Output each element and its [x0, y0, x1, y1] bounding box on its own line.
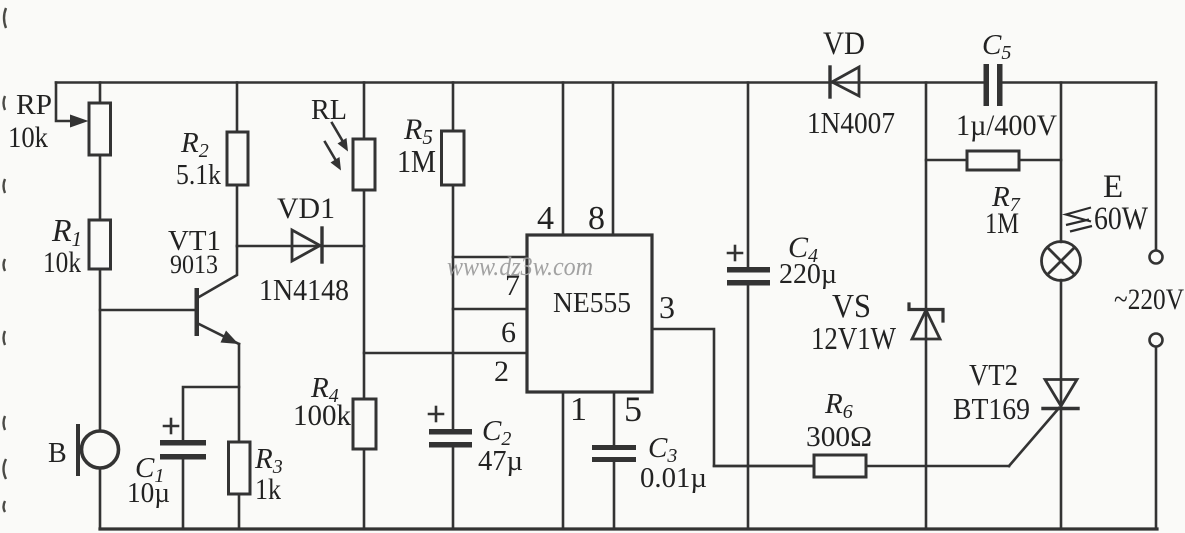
resistor R7 — [967, 151, 1019, 170]
svg-text:~220V: ~220V — [1114, 283, 1184, 316]
thyristor VT2 — [1045, 380, 1077, 407]
capacitor C1 plus sign — [164, 425, 178, 428]
wire: R2 bottom lead to VD1 node — [236, 185, 239, 246]
wire: lamp column from top rail — [1060, 83, 1063, 243]
svg-text:www.dz3w.com: www.dz3w.com — [447, 252, 593, 281]
svg-text:7: 7 — [505, 269, 520, 302]
svg-text:E: E — [1103, 169, 1123, 205]
svg-text:0.01µ: 0.01µ — [640, 463, 707, 494]
capacitor C1 plates — [160, 440, 206, 446]
photoresistor RL light arrows — [332, 123, 342, 140]
terminal upper ~220V — [1150, 251, 1163, 264]
wire: emitter down to R3 — [238, 344, 241, 442]
svg-text:4: 4 — [537, 200, 554, 237]
lamp E — [1042, 242, 1081, 281]
scan artifact marks (left edge) — [4, 8, 7, 512]
svg-text:2: 2 — [494, 355, 509, 388]
resistor R6 — [814, 455, 866, 477]
wire: RP wiper from top rail — [56, 83, 74, 122]
transistor VT1 collector stroke — [199, 246, 237, 297]
svg-text:5: 5 — [624, 389, 642, 429]
label 60W (lamp) with slanted less-equal sign — [1066, 208, 1092, 232]
wire: top rail right of C5 — [1002, 81, 1156, 84]
wire: VS column from top rail — [925, 83, 928, 340]
svg-text:8: 8 — [588, 200, 605, 237]
wire: VS to ground rail — [925, 339, 928, 529]
wire: bottom rail (ground) — [100, 527, 1157, 530]
transistor VT1 emitter stroke with arrow — [199, 324, 239, 344]
diode VD (1N4007) in top rail — [828, 67, 831, 97]
svg-text:NE555: NE555 — [553, 287, 631, 319]
capacitor C2 plus sign — [429, 413, 443, 416]
wire: R5 top lead from top rail — [452, 83, 455, 132]
svg-text:BT169: BT169 — [953, 391, 1030, 426]
wire: right column top — [1155, 83, 1158, 251]
svg-text:10k: 10k — [8, 121, 48, 154]
resistor R2 — [227, 132, 248, 185]
diode VD1 — [292, 230, 320, 261]
resistor R5 — [442, 131, 465, 185]
wire: pin 8 lead — [612, 83, 615, 236]
wire: VD1 anode wire — [237, 245, 364, 248]
wire: R7 right lead to lamp column — [1019, 159, 1061, 162]
svg-text:RP: RP — [16, 89, 52, 121]
svg-text:B: B — [48, 438, 67, 469]
wire: R4 to ground rail — [363, 449, 366, 529]
svg-text:9013: 9013 — [170, 250, 218, 279]
wire: RP to R1 — [99, 155, 102, 220]
wire: pin 5 lead to C3 — [613, 392, 616, 446]
resistor R3 — [229, 442, 251, 494]
resistor R4 — [353, 399, 376, 449]
wire: C1 top connection to emitter column — [183, 387, 239, 441]
zener diode VS — [909, 304, 943, 321]
svg-text:1N4148: 1N4148 — [259, 272, 349, 307]
resistor R1 — [89, 220, 111, 269]
wire: lamp to thyristor — [1060, 280, 1063, 406]
wire: C4 top lead from top rail — [747, 83, 750, 269]
wire: C3 to ground rail — [613, 462, 616, 529]
wire: pin 6 wire — [453, 308, 527, 311]
svg-text:1: 1 — [570, 391, 587, 428]
terminal lower ~220V — [1150, 334, 1163, 347]
capacitor C3 plates — [592, 445, 636, 450]
wire: R5 bottom down to C2 — [452, 185, 455, 431]
wire: pin 2 wire — [364, 352, 527, 355]
transistor VT1 base bar — [195, 288, 200, 336]
wire: R6 to gate diagonal — [866, 465, 1009, 468]
svg-text:12V1W: 12V1W — [811, 320, 897, 356]
svg-text:5.1k: 5.1k — [176, 159, 221, 191]
wire: R1 to microphone — [99, 269, 102, 431]
wire: R2 top lead from top rail — [236, 83, 239, 133]
svg-text:VD: VD — [823, 26, 865, 62]
svg-text:RL: RL — [311, 94, 347, 126]
svg-text:47µ: 47µ — [478, 446, 523, 477]
wire: R6 gate wire left — [714, 465, 814, 468]
op-amp U1: NE555 IC box — [527, 235, 652, 392]
wire: pin 3 output wire — [652, 329, 814, 466]
wire: R3 to ground rail — [238, 494, 241, 529]
svg-text:1µ/400V: 1µ/400V — [956, 109, 1057, 142]
capacitor C5 plates — [984, 64, 990, 106]
capacitor C4 plus sign — [728, 252, 742, 255]
capacitor C4 plates — [727, 267, 770, 273]
wire: pin 4 lead — [562, 83, 565, 236]
wire: left column top to RP — [99, 83, 102, 104]
wire: pin 7 wire — [453, 256, 527, 259]
svg-text:6: 6 — [501, 316, 516, 349]
potentiometer RP wiper arrow — [70, 115, 89, 128]
wire: RL top lead from top rail — [363, 83, 366, 140]
potentiometer RP — [89, 103, 111, 155]
wire: base wire from left column to VT1 — [100, 309, 195, 312]
wire: thyristor cathode to ground rail — [1060, 408, 1063, 529]
wire: thyristor gate diagonal — [1009, 408, 1059, 466]
wire: RL bottom through VD1 node and pin2 node to R4 — [363, 190, 366, 399]
wire: C2 bottom to ground rail — [452, 447, 455, 529]
photoresistor RL — [353, 139, 375, 190]
wire: right column bottom — [1155, 347, 1158, 529]
wire: C1 bottom to ground rail — [182, 459, 185, 529]
svg-text:1N4007: 1N4007 — [807, 105, 895, 140]
wire: R7 left lead from VS column — [926, 159, 967, 162]
microphone B — [82, 431, 119, 468]
svg-text:3: 3 — [659, 289, 675, 325]
wire: C4 bottom to ground rail — [747, 285, 750, 529]
wire: top rail (VCC) — [56, 81, 986, 84]
wire: pin 1 lead to ground — [562, 392, 565, 529]
svg-text:VT2: VT2 — [969, 357, 1018, 392]
wire: microphone to ground rail — [99, 469, 102, 529]
svg-text:60W: 60W — [1094, 201, 1149, 237]
capacitor C2 plates — [429, 429, 472, 435]
svg-text:300Ω: 300Ω — [806, 421, 872, 453]
svg-text:VD1: VD1 — [277, 192, 335, 225]
